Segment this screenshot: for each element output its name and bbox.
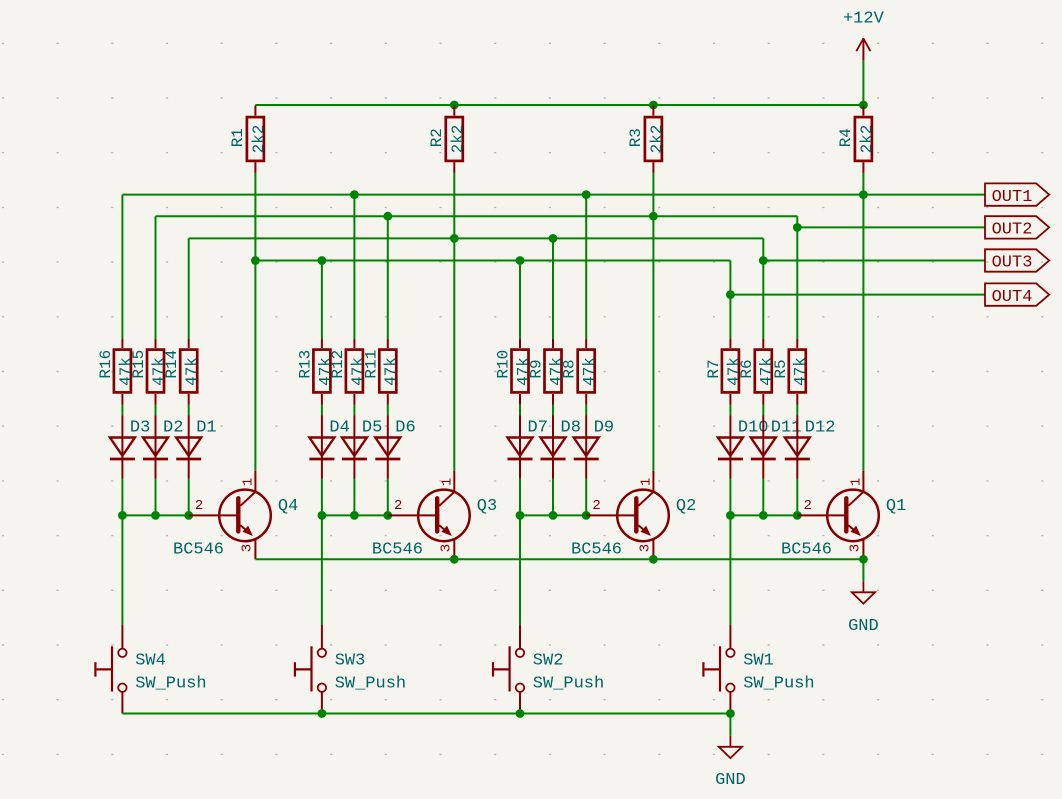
svg-text:3: 3 bbox=[848, 544, 864, 552]
junction base Q3 bbox=[350, 511, 359, 520]
svg-text:D8: D8 bbox=[561, 419, 581, 438]
svg-text:Q1: Q1 bbox=[886, 497, 906, 516]
junction base Q3 bbox=[318, 511, 327, 520]
svg-text:R14: R14 bbox=[163, 350, 181, 379]
wire to SW2 bbox=[519, 515, 521, 625]
wire to SW1 bbox=[729, 515, 731, 625]
svg-text:2: 2 bbox=[592, 498, 600, 514]
wire to SW3 bbox=[321, 515, 323, 625]
wire R4 to collector bbox=[862, 173, 864, 471]
svg-text:Q3: Q3 bbox=[477, 497, 497, 516]
svg-text:3: 3 bbox=[439, 544, 455, 552]
hierarchical label OUT4 bbox=[985, 283, 1049, 306]
wire R2 to collector bbox=[453, 173, 455, 471]
svg-text:Q4: Q4 bbox=[278, 497, 298, 516]
wire +12V to rail bbox=[862, 60, 864, 105]
junction base Q2 bbox=[516, 511, 525, 520]
diode D6 bbox=[375, 416, 415, 479]
junction emitter Q1 bbox=[859, 555, 868, 564]
wire column to R16 bbox=[121, 195, 123, 339]
svg-text:R11: R11 bbox=[362, 350, 380, 379]
svg-text:R7: R7 bbox=[705, 359, 723, 378]
junction OUT1/Q1 bbox=[859, 190, 868, 199]
junction OUT2/R11 bbox=[383, 212, 392, 221]
svg-text:SW_Push: SW_Push bbox=[335, 675, 406, 694]
junction emitter Q2 bbox=[649, 555, 658, 564]
wire net OUT1 row bbox=[122, 194, 985, 196]
resistor R5 47k bbox=[772, 339, 810, 405]
svg-text:R4: R4 bbox=[837, 128, 855, 147]
wire OUT2 stub bbox=[797, 226, 985, 228]
diode D3 bbox=[110, 416, 150, 479]
hierarchical label OUT3 bbox=[985, 249, 1049, 272]
svg-text:1: 1 bbox=[849, 478, 865, 486]
svg-text:BC546: BC546 bbox=[571, 541, 622, 560]
wire resistor to diode bbox=[121, 405, 123, 416]
svg-text:D1: D1 bbox=[196, 419, 216, 438]
svg-text:R10: R10 bbox=[495, 350, 513, 379]
wire resistor to diode bbox=[585, 405, 587, 416]
svg-text:3: 3 bbox=[240, 544, 256, 552]
hierarchical label OUT1 bbox=[985, 183, 1049, 206]
switch SW2 SW_Push bbox=[493, 625, 604, 714]
junction OUT4/R13 bbox=[318, 256, 327, 265]
wire column to R15 bbox=[155, 216, 157, 339]
diode D1 bbox=[176, 416, 216, 479]
svg-text:Q2: Q2 bbox=[676, 497, 696, 516]
transistor Q4 BC546 bbox=[173, 471, 298, 560]
junction bus SW2 bbox=[516, 709, 525, 718]
svg-text:R16: R16 bbox=[97, 350, 115, 379]
diode D7 bbox=[508, 416, 548, 479]
resistor R16 47k bbox=[97, 339, 135, 405]
wire bus to GND bbox=[729, 714, 731, 736]
svg-text:R5: R5 bbox=[772, 359, 790, 378]
svg-text:SW3: SW3 bbox=[335, 652, 366, 671]
svg-text:R13: R13 bbox=[296, 350, 314, 379]
svg-text:BC546: BC546 bbox=[173, 541, 224, 560]
wire resistor to diode bbox=[321, 405, 323, 416]
wire diode to base row bbox=[519, 479, 521, 516]
wire net OUT3 row bbox=[189, 237, 764, 239]
svg-text:D2: D2 bbox=[163, 419, 183, 438]
hierarchical label OUT2 bbox=[985, 216, 1049, 239]
diode D10 bbox=[718, 416, 769, 479]
svg-text:R6: R6 bbox=[738, 359, 756, 378]
junction base Q4 bbox=[118, 511, 127, 520]
svg-text:OUT3: OUT3 bbox=[992, 254, 1033, 273]
svg-text:GND: GND bbox=[848, 617, 879, 636]
resistor R14 47k bbox=[163, 339, 201, 405]
svg-text:47k: 47k bbox=[183, 357, 201, 386]
wire R1 to collector bbox=[254, 173, 256, 471]
resistor R3 2k2 bbox=[627, 106, 666, 173]
svg-text:1: 1 bbox=[440, 478, 456, 486]
wire to SW4 bbox=[121, 515, 123, 625]
wire net OUT4 row bbox=[255, 260, 730, 262]
wire base row Q1 bbox=[730, 514, 797, 516]
svg-text:47k: 47k bbox=[581, 357, 599, 386]
diode D9 bbox=[574, 416, 614, 479]
wire diode to base row bbox=[796, 479, 798, 516]
svg-text:47k: 47k bbox=[382, 357, 400, 386]
wire diode to base row bbox=[321, 479, 323, 516]
wire resistor to diode bbox=[188, 405, 190, 416]
svg-text:BC546: BC546 bbox=[372, 541, 423, 560]
wire resistor to diode bbox=[552, 405, 554, 416]
junction rail R3 bbox=[649, 101, 658, 110]
resistor R7 47k bbox=[705, 339, 743, 405]
resistor R9 47k bbox=[528, 339, 566, 405]
diode D12 bbox=[785, 416, 836, 479]
svg-text:1: 1 bbox=[241, 478, 257, 486]
junction base Q2 bbox=[582, 511, 591, 520]
junction rail R2 bbox=[450, 101, 459, 110]
svg-text:SW_Push: SW_Push bbox=[135, 675, 206, 694]
svg-text:2: 2 bbox=[803, 498, 811, 514]
junction base Q1 bbox=[726, 511, 735, 520]
wire emitter bus to GND bbox=[862, 559, 864, 581]
junction OUT3/Q3 bbox=[450, 234, 459, 243]
junction OUT3/R9 bbox=[549, 234, 558, 243]
svg-text:2: 2 bbox=[394, 498, 402, 514]
wire diode to base row bbox=[155, 479, 157, 516]
svg-text:2k2: 2k2 bbox=[858, 125, 876, 154]
svg-text:47k: 47k bbox=[792, 357, 810, 386]
svg-text:D4: D4 bbox=[329, 419, 349, 438]
wire diode to base row bbox=[188, 479, 190, 516]
junction OUT1/R12 bbox=[350, 190, 359, 199]
junction bus SW3 bbox=[318, 709, 327, 718]
junction emitter Q3 bbox=[450, 555, 459, 564]
diode D11 bbox=[751, 416, 802, 479]
wire column to R7 bbox=[729, 261, 731, 340]
resistor R11 47k bbox=[362, 339, 400, 405]
junction OUT2/R5 bbox=[793, 223, 802, 232]
svg-text:R8: R8 bbox=[561, 359, 579, 378]
wire column to R6 bbox=[762, 238, 764, 339]
svg-text:R15: R15 bbox=[130, 350, 148, 379]
wire column to R9 bbox=[552, 238, 554, 339]
wire diode to base row bbox=[762, 479, 764, 516]
switch SW4 SW_Push bbox=[95, 625, 206, 714]
svg-text:BC546: BC546 bbox=[781, 541, 832, 560]
resistor R10 47k bbox=[495, 339, 533, 405]
svg-text:D9: D9 bbox=[594, 419, 614, 438]
junction base Q3 bbox=[383, 511, 392, 520]
wire base row Q4 bbox=[122, 514, 188, 516]
junction base Q4 bbox=[184, 511, 193, 520]
wire resistor to diode bbox=[519, 405, 521, 416]
junction rail R4 bbox=[859, 101, 868, 110]
svg-text:2k2: 2k2 bbox=[250, 125, 268, 154]
wire net OUT2 row bbox=[156, 215, 798, 217]
wire column to R10 bbox=[519, 261, 521, 340]
svg-text:D12: D12 bbox=[805, 419, 836, 438]
wire diode to base row bbox=[729, 479, 731, 516]
ground GND (switches) bbox=[715, 736, 746, 790]
svg-text:R1: R1 bbox=[229, 128, 247, 147]
resistor R8 47k bbox=[561, 339, 599, 405]
resistor R1 2k2 bbox=[229, 106, 268, 173]
wire +12V rail bbox=[255, 104, 863, 106]
resistor R12 47k bbox=[329, 339, 367, 405]
wire resistor to diode bbox=[387, 405, 389, 416]
svg-text:D3: D3 bbox=[130, 419, 150, 438]
resistor R15 47k bbox=[130, 339, 168, 405]
svg-text:R9: R9 bbox=[528, 359, 546, 378]
wire column to R5 bbox=[796, 216, 798, 339]
diode D4 bbox=[309, 416, 349, 479]
transistor Q1 BC546 bbox=[781, 471, 906, 560]
junction base Q1 bbox=[759, 511, 768, 520]
junction bus SW1 bbox=[726, 709, 735, 718]
junction base Q2 bbox=[549, 511, 558, 520]
wire emitter bus bbox=[255, 558, 863, 560]
wire resistor to diode bbox=[155, 405, 157, 416]
svg-text:SW1: SW1 bbox=[743, 652, 774, 671]
diode D8 bbox=[541, 416, 581, 479]
svg-text:OUT4: OUT4 bbox=[992, 288, 1033, 307]
wire diode to base row bbox=[353, 479, 355, 516]
transistor Q2 BC546 bbox=[571, 471, 696, 560]
wire column to R11 bbox=[387, 216, 389, 339]
resistor R2 2k2 bbox=[428, 106, 467, 173]
svg-text:D6: D6 bbox=[395, 419, 415, 438]
svg-text:R12: R12 bbox=[329, 350, 347, 379]
svg-text:2: 2 bbox=[195, 498, 203, 514]
switch SW3 SW_Push bbox=[295, 625, 406, 714]
svg-text:2k2: 2k2 bbox=[648, 125, 666, 154]
svg-text:SW4: SW4 bbox=[135, 652, 166, 671]
svg-text:R3: R3 bbox=[627, 128, 645, 147]
wire resistor to diode bbox=[796, 405, 798, 416]
wire OUT3 stub bbox=[763, 260, 985, 262]
junction base Q1 bbox=[793, 511, 802, 520]
junction OUT4/R10 bbox=[516, 256, 525, 265]
resistor R4 2k2 bbox=[837, 106, 876, 173]
svg-text:2k2: 2k2 bbox=[449, 125, 467, 154]
svg-text:OUT2: OUT2 bbox=[992, 221, 1033, 240]
switch SW1 SW_Push bbox=[703, 625, 814, 714]
diode D5 bbox=[342, 416, 382, 479]
wire diode to base row bbox=[387, 479, 389, 516]
svg-text:1: 1 bbox=[639, 478, 655, 486]
wire diode to base row bbox=[585, 479, 587, 516]
svg-text:R2: R2 bbox=[428, 128, 446, 147]
wire diode to base row bbox=[552, 479, 554, 516]
wire switch bus bbox=[122, 713, 730, 715]
svg-text:D5: D5 bbox=[362, 419, 382, 438]
ground GND (emitters) bbox=[848, 581, 879, 636]
svg-text:3: 3 bbox=[638, 544, 654, 552]
wire column to R8 bbox=[585, 195, 587, 339]
wire column to R14 bbox=[188, 238, 190, 339]
diode D2 bbox=[143, 416, 183, 479]
svg-text:OUT1: OUT1 bbox=[992, 188, 1033, 207]
svg-text:GND: GND bbox=[715, 771, 746, 790]
wire resistor to diode bbox=[762, 405, 764, 416]
junction OUT2/Q2 bbox=[649, 212, 658, 221]
wire diode to base row bbox=[121, 479, 123, 516]
power symbol +12V bbox=[843, 10, 885, 61]
svg-text:SW_Push: SW_Push bbox=[533, 675, 604, 694]
svg-text:D7: D7 bbox=[528, 419, 548, 438]
transistor Q3 BC546 bbox=[372, 471, 497, 560]
wire base row Q3 bbox=[322, 514, 388, 516]
junction OUT4/R7 bbox=[726, 290, 735, 299]
svg-text:+12V: +12V bbox=[843, 10, 885, 29]
resistor R13 47k bbox=[296, 339, 334, 405]
wire resistor to diode bbox=[729, 405, 731, 416]
wire OUT4 stub bbox=[730, 294, 985, 296]
wire column to R13 bbox=[321, 261, 323, 340]
junction OUT1/R8 bbox=[582, 190, 591, 199]
wire R3 to collector bbox=[652, 173, 654, 471]
junction OUT4/Q4 bbox=[251, 256, 260, 265]
wire column to R12 bbox=[353, 195, 355, 339]
junction OUT3/R6 bbox=[759, 256, 768, 265]
svg-text:SW_Push: SW_Push bbox=[743, 675, 814, 694]
svg-text:SW2: SW2 bbox=[533, 652, 564, 671]
resistor R6 47k bbox=[738, 339, 776, 405]
wire resistor to diode bbox=[353, 405, 355, 416]
wire base row Q2 bbox=[520, 514, 586, 516]
junction base Q4 bbox=[151, 511, 160, 520]
